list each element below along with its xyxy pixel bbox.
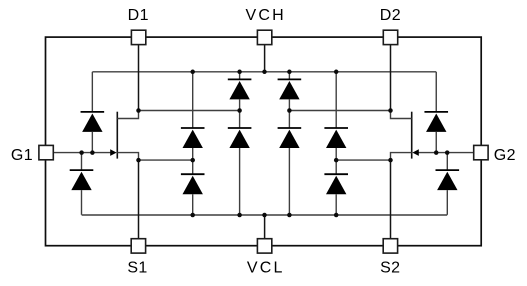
junction G2 wire / lower diode [445,150,450,155]
transistor Q1 source lead [117,153,138,161]
junction G1 wire / lower diode [79,150,84,155]
wire node S1 to diode stack mid (lower left horizontal) [139,159,193,161]
junction top-rail / column B [237,70,242,75]
svg-text:S1: S1 [127,260,147,277]
pin pad D2 [383,30,397,44]
junction top-rail / column A [190,70,195,75]
transistor Q1 channel bar [116,112,118,159]
junction node D2/Q2-drain [388,108,393,113]
junction top-rail / column C [287,70,292,75]
pin pad S1 [131,239,145,253]
wire VCH stub [264,45,266,72]
svg-text:D2: D2 [380,7,401,24]
diode D_G1_up anode-to-toprail [81,72,105,153]
junction node S1/Q1-source [136,158,141,163]
junction G2 wire / upper diode [434,150,439,155]
pin pad G1 [39,145,53,159]
wire node D2 to diode stack mid (upper right horizontal) [289,110,390,112]
svg-text:G2: G2 [494,147,516,164]
transistor Q2 channel bar [411,112,413,159]
wire VCL stub [264,215,266,239]
junction column C mid [287,108,292,113]
outer package boundary rectangle [46,37,482,246]
wire D2 stub [390,45,392,111]
pin pad VCL [257,239,271,253]
wire D1 stub [138,45,140,111]
junction bottom-rail / column A [190,213,195,218]
transistor Q2 drain lead [391,111,412,119]
diode D_G2_up anode-to-toprail [424,72,448,153]
diode D_G1_dn gate-to-bottomrail [70,153,94,215]
junction bottom-rail / VCL [262,213,267,218]
svg-text:VCL: VCL [247,260,285,277]
diode stack column B (x=239.6) [228,72,252,215]
junction column A mid [190,158,195,163]
svg-text:D1: D1 [128,7,149,24]
wire S2 stub [390,160,392,239]
pin pad G2 [474,145,488,159]
junction top-rail / column D [334,70,339,75]
junction bottom-rail / column D [334,213,339,218]
svg-text:VCH: VCH [246,7,286,24]
pin pad S2 [383,239,397,253]
wire node D1 to diode stack mid (upper left horizontal) [139,110,240,112]
diode stack column C (x=289.4) [278,72,302,215]
svg-text:S2: S2 [380,260,400,277]
top rail net wire [92,71,436,73]
transistor Q2 source lead [391,153,412,161]
junction bottom-rail / column B [237,213,242,218]
junction G1 wire / upper diode [90,150,95,155]
junction bottom-rail / column C [287,213,292,218]
svg-text:G1: G1 [11,147,33,164]
diode stack column D (x=336.2) [324,72,348,215]
junction node S2/Q2-source [388,158,393,163]
diode stack column A (x=192.7) [181,72,205,215]
wire G1 gate lead [53,149,116,156]
wire G2 gate lead [412,149,473,156]
pin pad D1 [131,30,145,44]
wire S1 stub [138,160,140,239]
bottom rail net wire [82,214,448,216]
junction column B mid [237,108,242,113]
diode D_G2_dn gate-to-bottomrail [436,153,460,215]
wire node S2 to diode stack mid (lower right horizontal) [336,159,390,161]
transistor Q1 drain lead [117,111,138,119]
pin pad VCH [257,30,271,44]
junction column D mid [334,158,339,163]
junction top-rail / VCH [262,70,267,75]
junction node D1/Q1-drain [136,108,141,113]
